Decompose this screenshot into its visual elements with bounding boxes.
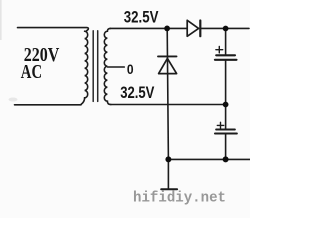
node B junction dot	[223, 26, 229, 32]
transformer T1 core	[93, 31, 98, 102]
wire C1 to node D	[225, 61, 227, 105]
node C junction dot	[165, 156, 171, 162]
node E junction dot	[223, 156, 229, 162]
capacitor C1	[215, 46, 237, 59]
diode D1	[187, 20, 200, 36]
node A junction dot	[164, 26, 170, 32]
svg-text:AC: AC	[21, 62, 42, 83]
diode D2	[158, 56, 177, 73]
capacitor C2	[215, 122, 237, 133]
svg-text:32.5V: 32.5V	[120, 83, 155, 102]
wire node A down through D2 to node C	[167, 28, 168, 159]
svg-text:hifidiy.net: hifidiy.net	[133, 190, 226, 207]
wire C2 to node E	[225, 134, 227, 159]
wire secondary top tap to node A	[110, 27, 187, 29]
wire bottom rail	[168, 158, 250, 160]
node D junction dot	[223, 102, 229, 108]
svg-text:32.5V: 32.5V	[124, 8, 159, 27]
wire primary top lead	[18, 28, 89, 32]
wire secondary bottom tap rail	[111, 104, 226, 106]
wire primary bottom lead	[15, 104, 82, 106]
svg-text:0: 0	[127, 62, 134, 77]
wire node D down to capacitor C2	[225, 105, 227, 129]
scan streak left edge	[0, 0, 2, 40]
ground	[161, 159, 177, 189]
scan smudge near bottom lead start	[9, 98, 18, 102]
wire node B down to capacitor C1	[225, 28, 227, 54]
transformer T1 secondary winding	[104, 28, 111, 104]
wire secondary center tap 0	[108, 66, 125, 68]
wire D1 cathode to node B	[201, 27, 249, 29]
transformer T1 primary winding	[81, 31, 88, 104]
